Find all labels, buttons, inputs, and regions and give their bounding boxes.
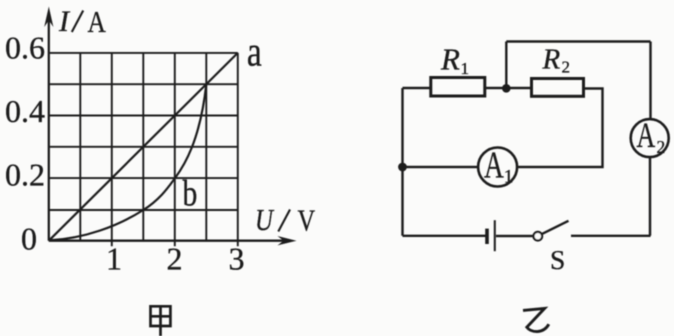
svg-text:A: A xyxy=(484,144,504,186)
svg-text:3: 3 xyxy=(229,241,245,277)
junction node between R1 and R2 xyxy=(502,84,511,93)
wire: junction up to top rail xyxy=(505,42,507,89)
line a xyxy=(49,53,238,241)
ammeter A1 xyxy=(478,148,517,187)
wire: top rail xyxy=(506,40,650,42)
caption jia (甲) drawn as path xyxy=(151,306,171,336)
resistor R1 xyxy=(431,78,485,97)
wire: left vertical xyxy=(401,88,403,236)
x-axis U xyxy=(49,240,288,242)
svg-text:1: 1 xyxy=(461,59,470,78)
x-axis arrowhead xyxy=(278,236,297,245)
svg-text:0.4: 0.4 xyxy=(5,93,45,129)
resistor R2 xyxy=(532,79,584,97)
battery long plate xyxy=(494,220,496,251)
svg-text:S: S xyxy=(550,244,565,275)
y-axis arrowhead xyxy=(44,7,53,28)
svg-text:U: U xyxy=(255,203,274,237)
ammeter A2 xyxy=(631,119,669,157)
wire: bottom rail right (switch to corner) xyxy=(571,235,651,237)
svg-text:2: 2 xyxy=(167,241,183,277)
wire: R2 right lead down to A1 row xyxy=(518,89,603,168)
svg-text:1: 1 xyxy=(504,167,514,188)
battery short plate xyxy=(485,229,489,244)
svg-text:0.2: 0.2 xyxy=(5,156,45,192)
junction node on left wire xyxy=(398,163,407,172)
svg-text:R: R xyxy=(440,42,460,77)
svg-text:V: V xyxy=(298,204,316,238)
svg-text:A: A xyxy=(637,115,656,155)
wire: battery to switch xyxy=(496,235,534,237)
caption yi (乙) drawn as path xyxy=(523,308,549,331)
svg-text:1: 1 xyxy=(106,241,122,277)
svg-text:b: b xyxy=(183,173,198,214)
wire: bottom rail left xyxy=(403,235,488,237)
x-axis tick marks xyxy=(112,241,238,247)
switch pivot xyxy=(534,232,543,241)
svg-text:0: 0 xyxy=(21,221,37,257)
svg-text:0.6: 0.6 xyxy=(5,29,45,65)
svg-text:2: 2 xyxy=(657,137,666,157)
grid vertical lines xyxy=(80,53,238,241)
y-axis I xyxy=(48,16,50,241)
svg-text:2: 2 xyxy=(562,58,571,77)
curve b xyxy=(49,84,207,240)
wire: R1 to R2 xyxy=(485,87,532,89)
svg-text:R: R xyxy=(542,43,561,75)
svg-text:A: A xyxy=(88,6,107,40)
wire: A1 left to node xyxy=(403,166,479,168)
wire: R1 left lead xyxy=(403,87,431,89)
switch S lever xyxy=(542,221,569,234)
svg-text:a: a xyxy=(247,29,262,75)
grid horizontal lines xyxy=(49,53,238,210)
wire: right vertical lower xyxy=(649,158,651,236)
wire: right vertical upper xyxy=(649,42,651,120)
